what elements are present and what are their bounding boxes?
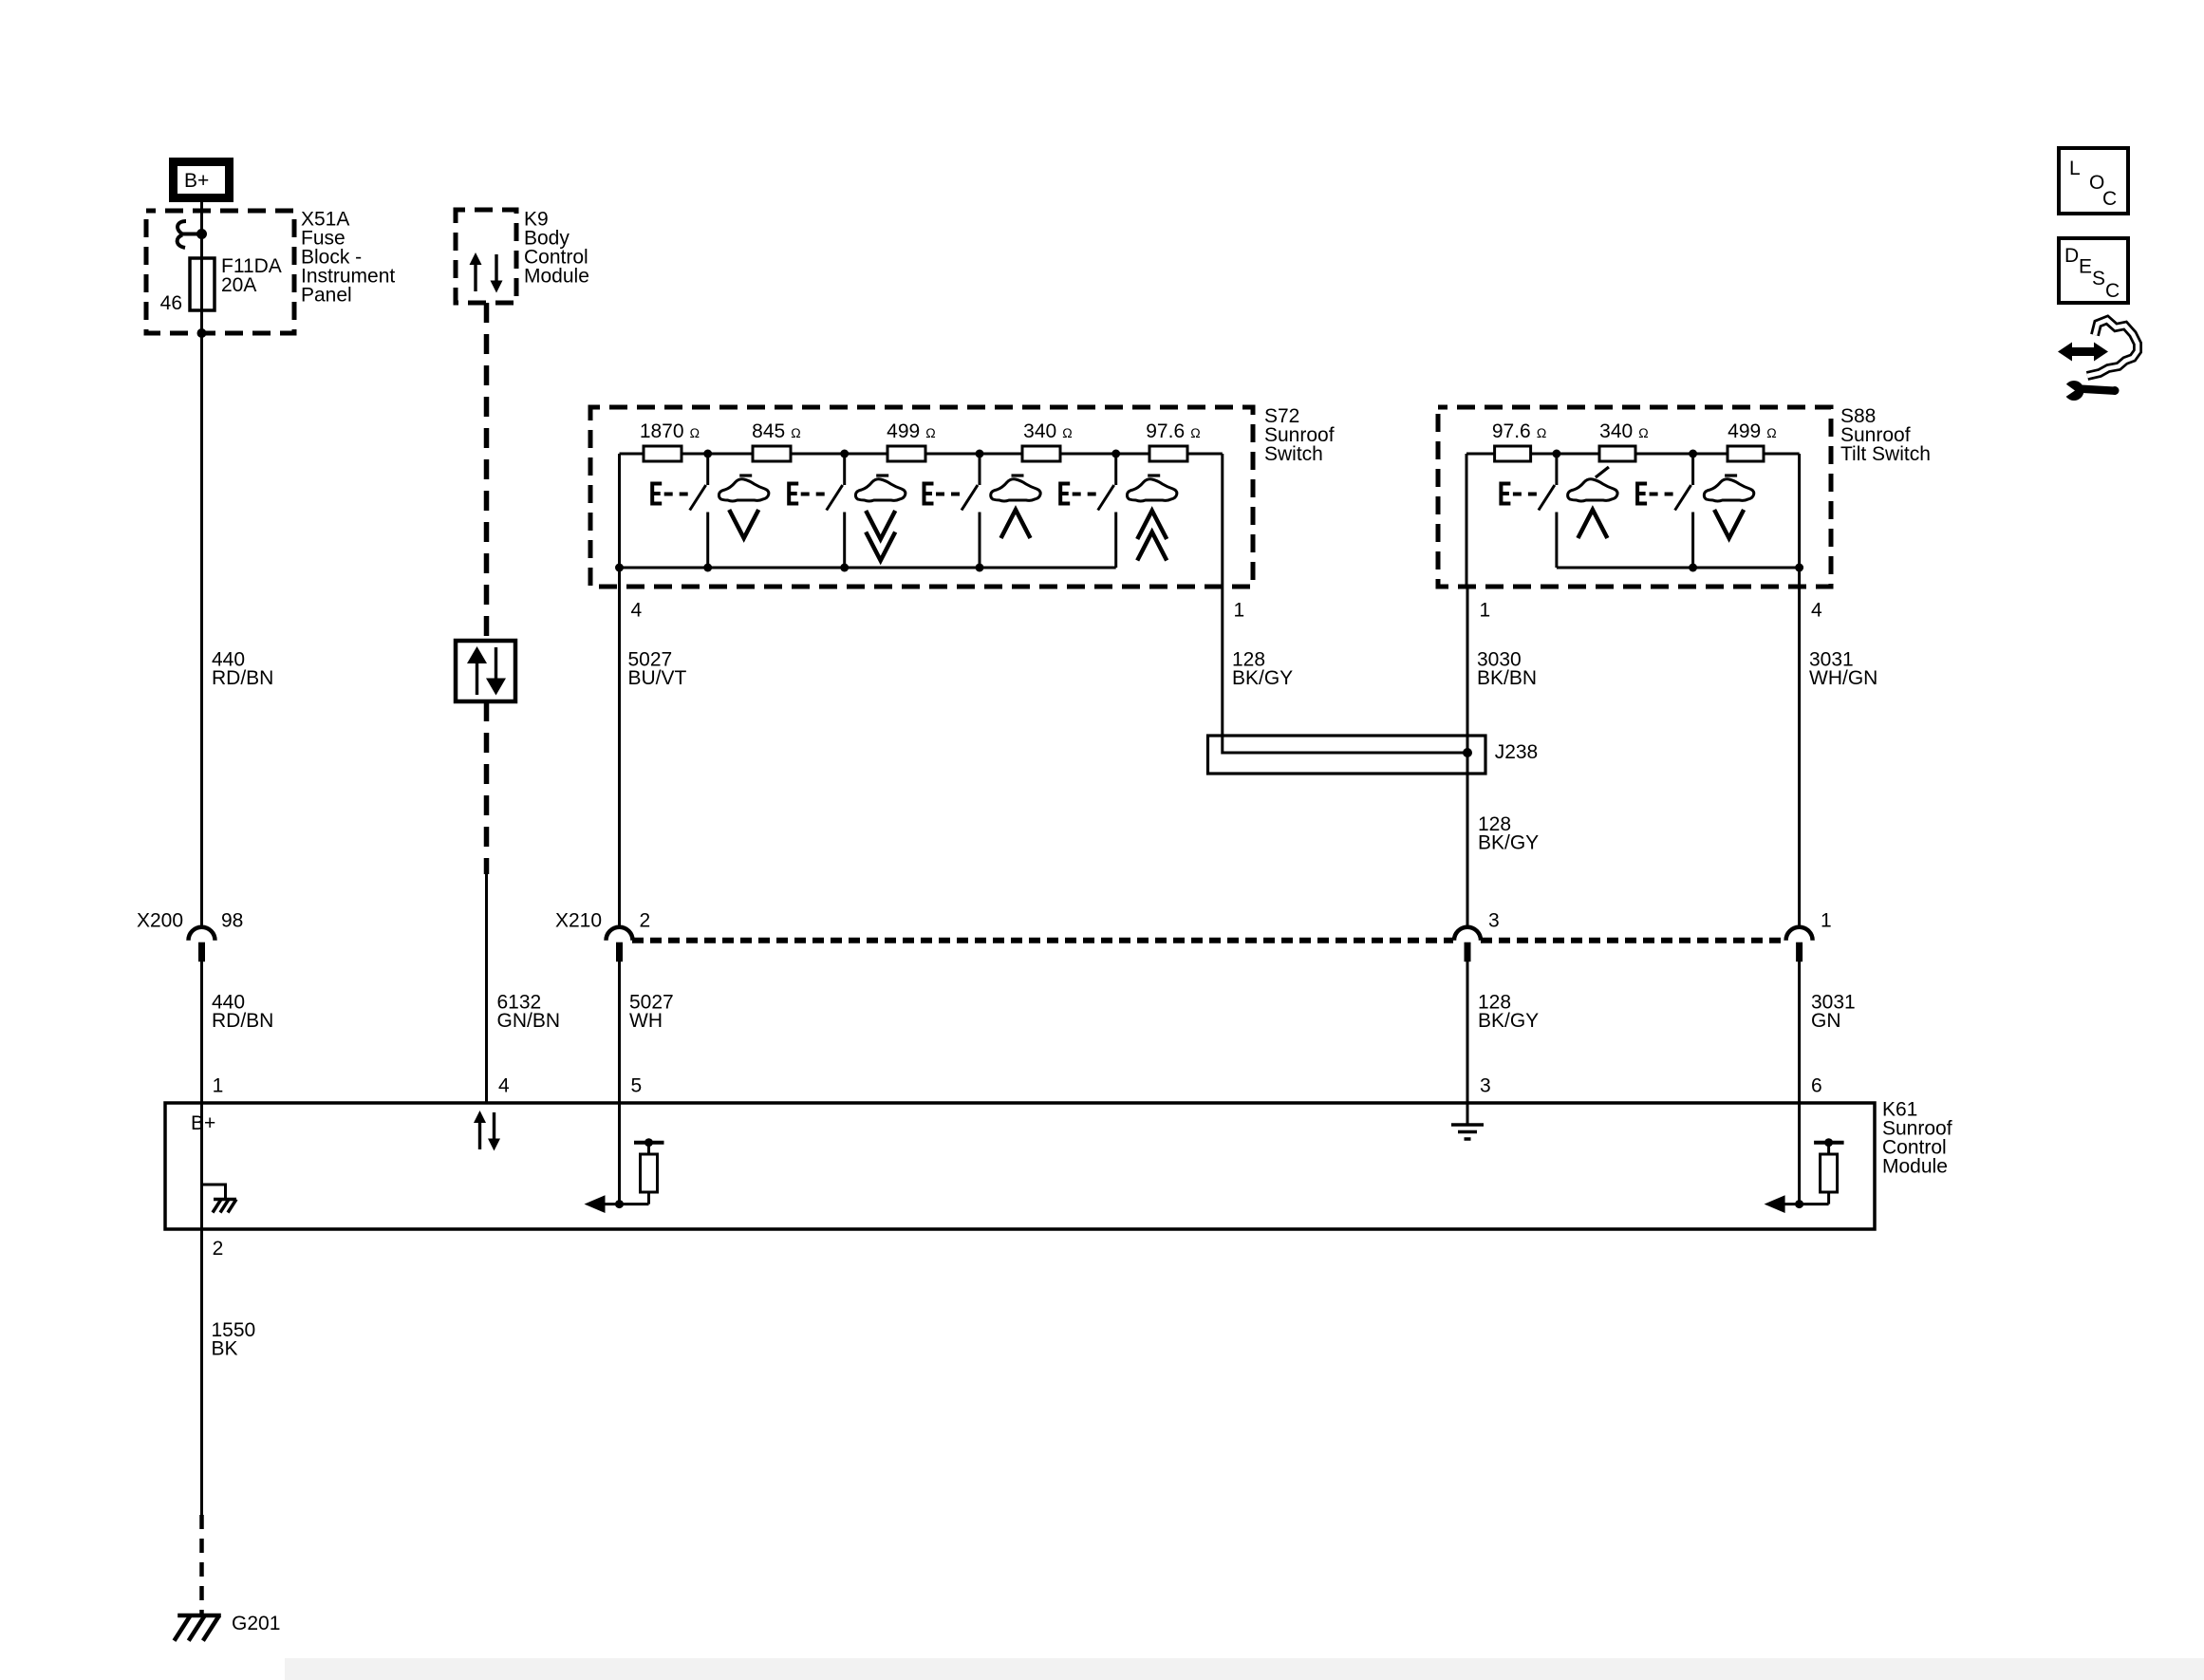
connector X210 pin 2 — [555, 910, 650, 962]
svg-text:X210: X210 — [555, 910, 602, 932]
sunroof control module K61 — [165, 1103, 1875, 1229]
svg-text:D: D — [2064, 245, 2079, 267]
node S72-C — [976, 450, 984, 458]
connector X200 — [137, 910, 243, 962]
svg-text:B+: B+ — [191, 1112, 215, 1134]
resistor 97.6 ohm S88 — [1495, 446, 1531, 461]
connector X210 dashed line — [632, 938, 1453, 943]
switch contact S88 tilt down — [1637, 454, 1693, 568]
svg-text:4: 4 — [498, 1075, 510, 1097]
wire 128 BK/GY (S72 pin1 to splice) — [1223, 587, 1467, 753]
position sensor pin 5 — [585, 1138, 664, 1213]
resistor 340 ohm S88 — [1599, 446, 1635, 461]
S88 left vertical (pin 1) — [1466, 454, 1468, 587]
svg-text:5: 5 — [631, 1075, 643, 1097]
svg-text:B+: B+ — [184, 170, 209, 192]
svg-text:1: 1 — [1480, 600, 1491, 622]
junction J238 — [1463, 748, 1472, 757]
bus junction S72 pin4 — [615, 564, 624, 572]
node S72-A — [703, 450, 712, 458]
internal wire pin1-pin2 — [200, 1103, 203, 1229]
svg-text:3: 3 — [1488, 910, 1500, 932]
S72 top rail — [620, 453, 1223, 456]
position sensor pin 6 — [1765, 1138, 1844, 1213]
connector X210 pin 3 — [1454, 910, 1500, 962]
wire 5027 WH — [618, 961, 621, 1103]
wire 3031 WH/GN — [1798, 587, 1801, 928]
wire pin lead pin 6 — [1798, 1103, 1801, 1204]
svg-text:2: 2 — [213, 1238, 224, 1260]
wire 128 BK/GY lower — [1466, 961, 1469, 1103]
S72 left vertical (pin 4) — [618, 454, 621, 587]
chassis ground symbol internal — [214, 1198, 236, 1202]
service icon — [2058, 320, 2138, 401]
S72 right vertical (pin 1) — [1221, 454, 1223, 587]
connector X210 pin 1 — [1786, 910, 1832, 962]
LOC box — [2059, 148, 2128, 214]
S88 right vertical (pin 4) — [1798, 454, 1801, 587]
svg-text:G201: G201 — [232, 1613, 280, 1634]
wire 6132 GN/BN — [485, 871, 488, 1103]
node S88-A — [1552, 450, 1560, 458]
svg-text:4: 4 — [631, 600, 643, 622]
bus junction 1 — [703, 564, 712, 572]
svg-text:1: 1 — [1821, 910, 1832, 932]
svg-text:46: 46 — [160, 292, 182, 314]
wire 3031 GN — [1798, 961, 1801, 1103]
node S88-B — [1689, 450, 1697, 458]
ground G201 — [175, 1613, 281, 1641]
fuse block X51A dashed outline — [146, 211, 294, 333]
bus junction S88-1 — [1689, 564, 1697, 572]
svg-text:C: C — [2102, 188, 2117, 210]
svg-text:1: 1 — [1234, 600, 1245, 622]
fuse F11DA — [190, 258, 215, 310]
switch contact S72 express open — [1060, 454, 1116, 568]
wire pin lead pin 5 — [618, 1103, 621, 1204]
resistor 845 ohm — [753, 446, 791, 461]
svg-text:3: 3 — [1480, 1075, 1491, 1097]
wire 3030 BK/BN — [1466, 587, 1469, 928]
circuit breaker symbol — [177, 221, 202, 248]
K9 up/down arrows — [470, 252, 503, 293]
in-line up/down switch symbol box — [456, 641, 515, 701]
switch contact S88 tilt up — [1501, 454, 1557, 568]
car icon S72 open — [991, 476, 1040, 538]
svg-text:6: 6 — [1811, 1075, 1822, 1097]
junction at breaker — [196, 229, 207, 239]
car icon S72 express open — [1127, 476, 1176, 561]
resistor 97.6 ohm — [1149, 446, 1187, 461]
switch contact S72 open — [925, 454, 981, 568]
bus junction 3 — [976, 564, 984, 572]
S72 bottom bus — [620, 567, 1116, 569]
svg-text:4: 4 — [1811, 600, 1822, 622]
svg-text:L: L — [2069, 158, 2081, 179]
car icon S88 tilt up — [1568, 467, 1617, 538]
wire from K9 (dashed BCM internal) — [484, 303, 490, 641]
body control module K9 dashed outline — [456, 210, 516, 303]
wire 5027 BU/VT — [618, 587, 621, 928]
bus junction 2 — [840, 564, 849, 572]
wire 1550 BK dashed to ground — [199, 1515, 204, 1615]
svg-text:20A: 20A — [221, 274, 256, 296]
splice J238 — [1208, 736, 1486, 774]
sunroof tilt switch S88 dashed outline — [1438, 407, 1831, 587]
car icon S88 tilt down — [1704, 476, 1753, 538]
S88 top rail — [1466, 453, 1800, 456]
power feed B+ terminal — [174, 162, 230, 198]
bus junction S88 pin4 — [1795, 564, 1803, 572]
module up/down arrows (pin 4) — [474, 1111, 500, 1151]
DESC box — [2059, 238, 2128, 303]
junction at fuse block exit — [197, 328, 207, 338]
resistor 1870 ohm — [644, 446, 682, 461]
switch contact S72 close — [652, 454, 708, 568]
svg-text:X200: X200 — [137, 910, 183, 932]
node S72-B — [840, 450, 849, 458]
node S72-D — [1111, 450, 1120, 458]
S88 bottom bus — [1557, 567, 1800, 569]
resistor 340 ohm — [1022, 446, 1060, 461]
earth ground inside module (pin 3) — [1466, 1103, 1469, 1125]
resistor 499 ohm — [887, 446, 925, 461]
svg-text:98: 98 — [221, 910, 243, 932]
svg-text:C: C — [2105, 280, 2120, 302]
wire 440 RD/BN main feed — [200, 202, 203, 928]
switch contact S72 express close — [789, 454, 845, 568]
svg-text:2: 2 — [640, 910, 651, 932]
svg-text:J238: J238 — [1495, 741, 1539, 763]
resistor 499 ohm S88 — [1728, 446, 1764, 461]
svg-text:S: S — [2092, 268, 2105, 289]
car icon S72 express close — [855, 476, 905, 561]
svg-text:1: 1 — [213, 1075, 224, 1097]
sunroof switch S72 dashed outline — [590, 407, 1253, 587]
internal chassis ground branch — [202, 1185, 226, 1200]
svg-text:E: E — [2079, 256, 2092, 278]
car icon S72 close — [719, 476, 768, 538]
